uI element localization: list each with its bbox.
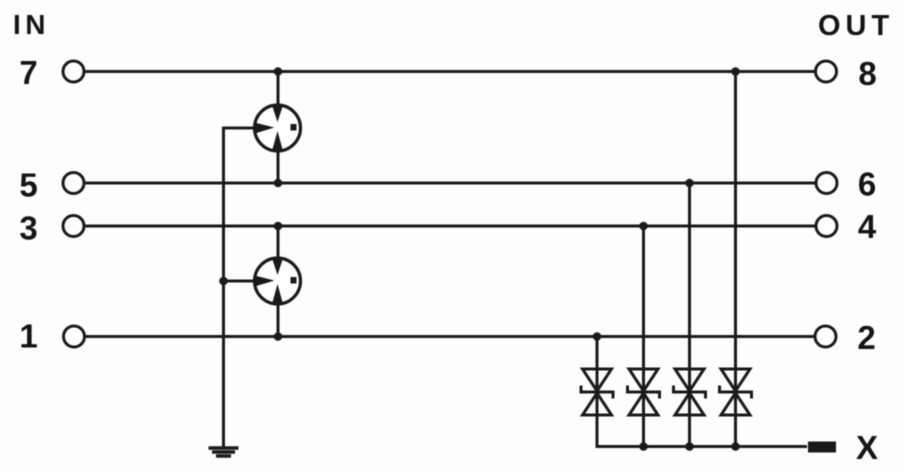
svg-text:IN: IN (13, 9, 50, 40)
svg-text:2: 2 (857, 319, 875, 356)
svg-text:8: 8 (858, 55, 876, 92)
svg-text:7: 7 (19, 54, 37, 91)
svg-text:4: 4 (858, 208, 877, 245)
svg-text:OUT: OUT (818, 10, 894, 42)
svg-text:1: 1 (19, 318, 37, 355)
svg-text:6: 6 (858, 166, 876, 203)
svg-text:5: 5 (19, 167, 37, 204)
svg-text:X: X (856, 429, 878, 466)
svg-text:3: 3 (19, 210, 37, 247)
